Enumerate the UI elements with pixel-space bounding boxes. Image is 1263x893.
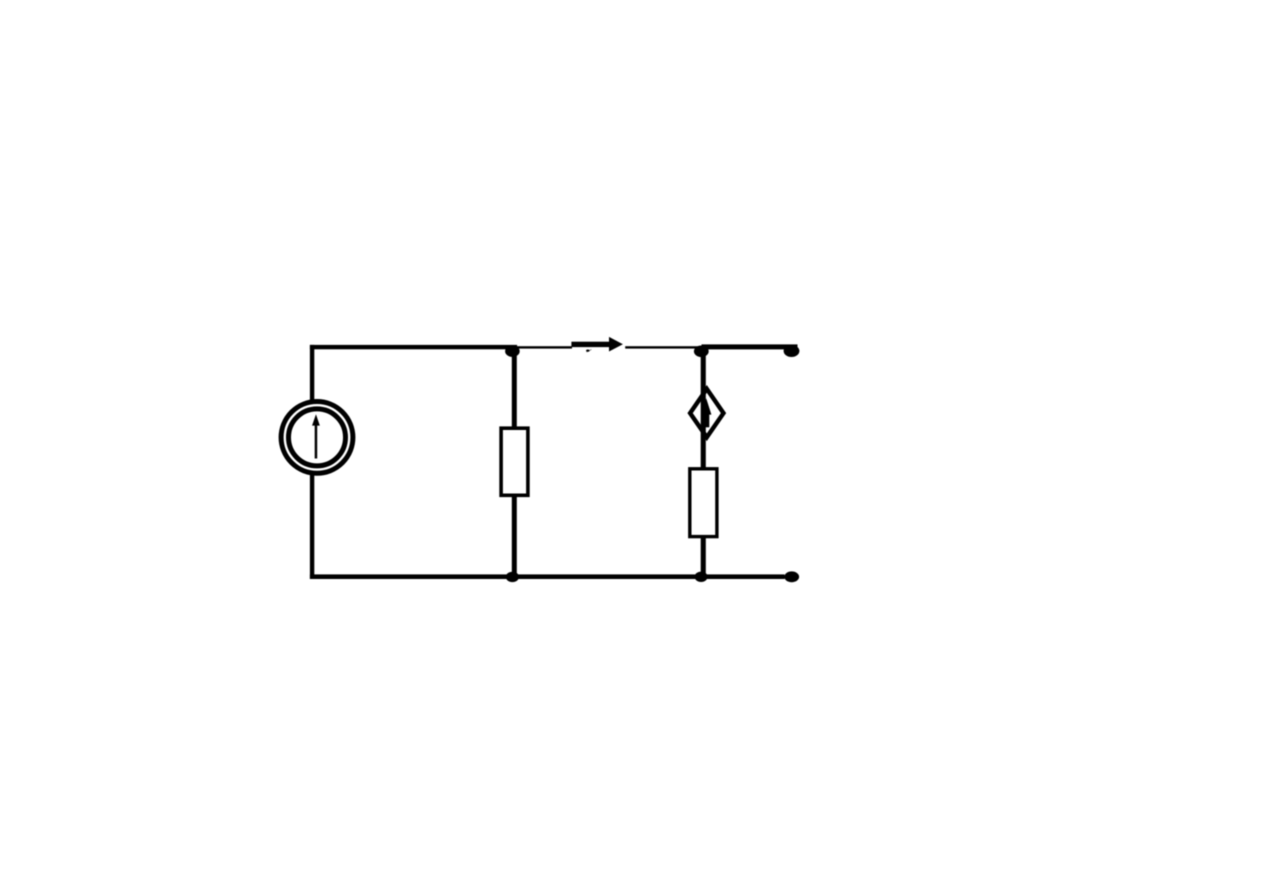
wire: vertical from resistor R1 down to bottom rail — [512, 496, 517, 578]
wire: left vertical upper (corner down to current source top) — [310, 345, 314, 401]
stray mark under arrow — [586, 349, 591, 352]
junction dot bottom of R2 branch — [695, 572, 708, 582]
wire: thick horizontal node 3 to terminal a — [702, 344, 798, 349]
wire: vertical from node 3 down into diamond — [701, 351, 706, 468]
terminal a dot (top right) — [784, 345, 800, 357]
wire: left vertical lower (current source bottom to bottom wire) — [310, 474, 314, 579]
junction dot bottom of R1 — [506, 572, 519, 582]
node 2: junction dot top of R1 — [505, 346, 520, 357]
terminal b dot (bottom right) — [784, 571, 799, 582]
current direction arrow label i — [571, 337, 623, 352]
wire: top horizontal from top-left corner to node 2 — [310, 345, 517, 349]
resistor R1 — [501, 428, 528, 495]
wire: thin horizontal current arrow to node 3 — [625, 346, 701, 348]
node 3: junction dot top of dependent source — [694, 346, 709, 358]
wire: vertical from resistor R2 down to bottom rail — [701, 537, 706, 579]
wire: vertical from node 2 down to resistor R1 — [512, 351, 517, 428]
current source I1 (independent, arrow up) — [281, 402, 353, 474]
resistor R2 — [690, 469, 717, 537]
wire: thin horizontal node 2 to current arrow — [516, 346, 572, 348]
dependent current source G1 (diamond) — [690, 389, 723, 437]
arrow inside dependent source G1 — [701, 398, 711, 427]
wire: bottom horizontal rail — [310, 574, 785, 579]
